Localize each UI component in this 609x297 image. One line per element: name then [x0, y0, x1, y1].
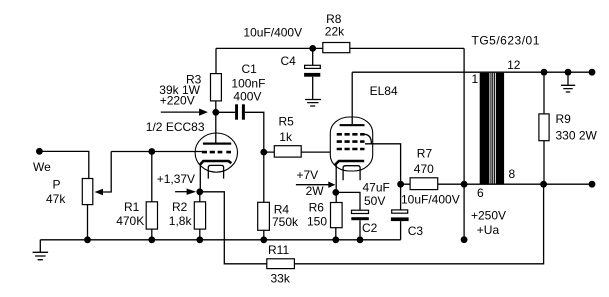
svg-text:R11: R11	[268, 243, 289, 257]
svg-text:R6: R6	[309, 201, 325, 215]
svg-text:10uF/400V: 10uF/400V	[243, 25, 302, 39]
svg-text:10uF/400V: 10uF/400V	[401, 192, 460, 206]
svg-text:1: 1	[472, 72, 479, 86]
svg-text:R7: R7	[417, 147, 433, 161]
svg-text:1k: 1k	[279, 130, 293, 144]
svg-text:470K: 470K	[116, 214, 144, 228]
svg-text:150: 150	[307, 215, 327, 229]
svg-text:2W: 2W	[306, 184, 325, 198]
svg-text:6: 6	[477, 186, 484, 200]
svg-text:12: 12	[507, 58, 521, 72]
svg-text:33k: 33k	[271, 272, 291, 286]
svg-text:100nF: 100nF	[231, 76, 265, 90]
svg-text:R5: R5	[279, 115, 295, 129]
svg-text:+1,37V: +1,37V	[157, 172, 195, 186]
svg-text:C1: C1	[242, 62, 258, 76]
svg-text:8: 8	[509, 167, 516, 181]
svg-text:47uF: 47uF	[363, 181, 390, 195]
svg-text:R2: R2	[172, 200, 188, 214]
svg-text:750k: 750k	[272, 215, 299, 229]
svg-text:+220V: +220V	[160, 94, 195, 108]
svg-text:TG5/623/01: TG5/623/01	[472, 33, 540, 47]
svg-text:+250V: +250V	[471, 209, 506, 223]
svg-text:1,8k: 1,8k	[169, 214, 193, 228]
svg-text:We: We	[33, 160, 51, 174]
svg-text:C4: C4	[281, 54, 297, 68]
svg-text:+Ua: +Ua	[477, 223, 500, 237]
svg-text:400V: 400V	[233, 90, 261, 104]
svg-text:470: 470	[414, 162, 434, 176]
svg-text:R1: R1	[124, 200, 140, 214]
svg-text:R9: R9	[556, 112, 572, 126]
svg-text:50V: 50V	[364, 194, 385, 208]
svg-text:1/2 ECC83: 1/2 ECC83	[146, 120, 205, 134]
svg-text:330 2W: 330 2W	[556, 129, 598, 143]
svg-text:C2: C2	[362, 221, 378, 235]
svg-text:C3: C3	[408, 224, 424, 238]
svg-text:EL84: EL84	[370, 84, 398, 98]
svg-text:47k: 47k	[46, 192, 66, 206]
svg-text:+7V: +7V	[297, 168, 319, 182]
svg-text:22k: 22k	[325, 25, 345, 39]
svg-text:P: P	[53, 178, 61, 192]
